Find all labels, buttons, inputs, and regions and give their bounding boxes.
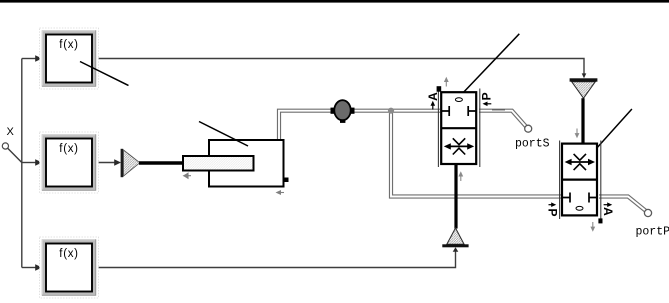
function block F1 <box>40 28 99 89</box>
valve V1 seat left <box>442 106 449 116</box>
valve V1 seat right <box>468 106 475 116</box>
valve V1 right rail <box>479 89 481 168</box>
node X input connector wire <box>8 59 22 268</box>
svg-text:A: A <box>426 92 440 101</box>
piston rod rectangle <box>183 156 254 171</box>
valve V2 closed-position arrow <box>568 161 591 163</box>
cylinder port nub <box>284 178 289 183</box>
valve V2 left rail <box>559 141 561 220</box>
valve V2 port A arrow <box>604 204 608 206</box>
callout line on valve V2 <box>598 109 632 147</box>
wire to F3 input <box>22 267 37 269</box>
tank T2 below valve V1 <box>447 228 464 244</box>
valve V1 gray arrow top <box>445 81 447 87</box>
valve V1 closed-position arrow <box>448 145 471 147</box>
pipe from valve V1 port P to portS <box>479 111 526 127</box>
wire W8 from block F3 output to tank T2 <box>96 250 456 268</box>
gray arrow at cylinder <box>278 192 285 194</box>
valve V1 port A arrow <box>432 105 434 110</box>
tank T1 bar <box>570 78 598 81</box>
valve V2 seat left <box>563 193 570 203</box>
cylinder body <box>209 140 284 187</box>
svg-text:P: P <box>480 92 494 100</box>
portP connector circle <box>644 209 651 216</box>
valve V2 seat right <box>589 193 596 203</box>
function block F3 <box>40 237 99 298</box>
frame top border line <box>0 0 669 3</box>
tank T1 above valve V2 <box>572 82 596 99</box>
function block F2 <box>40 132 99 193</box>
tank T2 bar <box>442 244 468 247</box>
valve V2 closed-position X <box>574 154 586 170</box>
tank T1 line to valve V2 <box>581 98 584 143</box>
svg-text:portS: portS <box>515 137 550 150</box>
valve V2 gray arrow bottom <box>592 222 594 228</box>
valve V1 gray arrow bottom <box>460 176 462 182</box>
svg-text:portP: portP <box>636 225 669 238</box>
pipe from cylinder to valve V1 port A <box>279 111 440 140</box>
wire to F2 input <box>22 162 37 164</box>
valve V2 body <box>562 144 597 216</box>
valve V2 right rail <box>600 141 602 220</box>
valve V2 port P arrow <box>549 204 553 206</box>
valve V2 box divider <box>562 179 597 181</box>
junction node <box>388 108 394 114</box>
valve V1 box divider <box>441 127 476 129</box>
svg-text:A: A <box>601 207 615 216</box>
valve V1 left rail <box>437 89 439 168</box>
connector X circle <box>2 143 8 149</box>
callout line on valve V1 <box>460 34 519 96</box>
callout line on F1 <box>80 62 129 86</box>
converter gain triangle <box>124 150 140 176</box>
pipe from valve V2 port A to portP <box>599 197 646 211</box>
valve V1 pilot square <box>437 86 442 92</box>
valve V1 port P arrow <box>486 103 491 105</box>
valve V2 poppet ellipse <box>576 206 583 210</box>
valve V2 pilot square <box>598 218 602 223</box>
valve V2 gray arrow top <box>576 129 578 135</box>
portS connector circle <box>525 125 532 132</box>
callout line on cylinder <box>199 122 248 147</box>
converter bar <box>121 149 124 177</box>
arrowhead into tank T2 <box>453 247 459 252</box>
pump element between cylinder and valve V1 <box>331 108 336 114</box>
wire to F1 input <box>22 58 37 60</box>
wire W7 from F2 output to converter <box>96 162 116 164</box>
pipe from junction to valve V2 port P <box>391 111 561 197</box>
valve V1 drain line to tank T2 <box>454 164 457 229</box>
valve V1 closed-position X <box>453 138 465 154</box>
valve V1 body <box>441 92 476 164</box>
svg-text:P: P <box>545 208 559 216</box>
gray arrow at rod <box>184 173 191 178</box>
valve V1 poppet ellipse <box>455 98 462 102</box>
portS stub connection mark <box>492 109 505 111</box>
arrowhead into tank T1 <box>582 73 587 78</box>
piston rod line <box>139 161 184 164</box>
wire W6 from block F1 output to tank T1 <box>96 59 584 75</box>
svg-text:X: X <box>7 126 15 138</box>
